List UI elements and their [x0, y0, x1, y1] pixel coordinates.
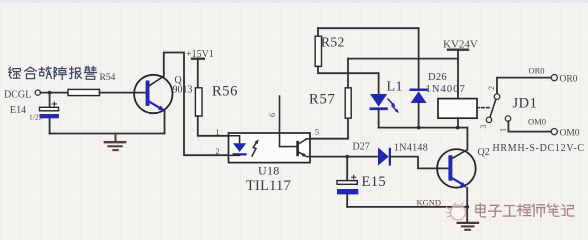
wire R54 to Q1 base [100, 92, 146, 94]
node junction D26 anode [417, 126, 421, 130]
diode D26 [409, 89, 427, 104]
svg-text:JD1: JD1 [513, 96, 538, 112]
resistor R54 [68, 89, 100, 95]
relay contact common [494, 94, 500, 100]
LED L1 [370, 73, 388, 127]
wire contact NO to OM0 [508, 121, 551, 131]
relay contact NC [486, 117, 491, 122]
wire E15 top stem [346, 157, 348, 181]
wire contact common to OR0 [497, 78, 551, 94]
node junction E15 tap [345, 155, 349, 159]
svg-text:2: 2 [487, 86, 496, 90]
svg-text:OM0: OM0 [560, 129, 580, 139]
svg-text:OM0: OM0 [528, 117, 546, 127]
wire KGND rail [347, 206, 467, 208]
watermark text 电子工程师笔记 [476, 204, 574, 217]
wire E14 bottom stem [49, 118, 51, 133]
wire R57 top [347, 59, 349, 88]
wire D27 to Q2 base [391, 157, 448, 169]
diode LED inside U18 [229, 136, 247, 156]
svg-text:1N4148: 1N4148 [394, 143, 428, 154]
ground right [458, 223, 478, 230]
wire DCGL to R54 [40, 92, 68, 94]
wire R57 bottom [347, 118, 349, 139]
capacitor E15 [337, 175, 358, 194]
node junction coil stem [456, 126, 460, 130]
wire pin5 to R57 [310, 138, 348, 140]
svg-text:R56: R56 [212, 84, 238, 100]
svg-text:6: 6 [268, 113, 277, 117]
svg-text:U18: U18 [258, 164, 280, 178]
arrows LED emission [388, 99, 399, 113]
wire R56 to opto pin1 [198, 116, 229, 136]
wire D26 top [418, 28, 420, 89]
svg-text:5: 5 [315, 128, 319, 137]
wire Q2 collector [466, 128, 468, 150]
wire R52 top stem [317, 28, 319, 36]
svg-text:1: 1 [216, 128, 220, 137]
capacitor E14 [40, 102, 59, 118]
svg-text:OR0: OR0 [529, 66, 545, 76]
transistor Q1 [134, 75, 172, 113]
op-amp U18 optocoupler box [229, 133, 311, 163]
svg-text:OR0: OR0 [560, 75, 578, 85]
svg-text:HRMH-S-DC12V-C: HRMH-S-DC12V-C [493, 143, 585, 154]
wire pin4 to D27 [310, 156, 378, 158]
power KV24V [443, 39, 478, 99]
svg-text:R54: R54 [100, 73, 116, 83]
relay contact NO [505, 116, 510, 121]
svg-text:1/25: 1/25 [29, 113, 43, 122]
wire E15 bottom stem [346, 194, 348, 207]
svg-text:D27: D27 [353, 142, 370, 153]
wire Q1 emitter [164, 111, 166, 133]
arrow light bolt [252, 139, 259, 156]
svg-text:9013: 9013 [173, 85, 193, 96]
svg-text:1: 1 [499, 128, 508, 132]
wire Q1 collector to opto pin2 [164, 53, 229, 156]
wire pin6 stub [280, 96, 297, 147]
transistor inside U18 [296, 139, 310, 157]
resistor R57 [345, 88, 351, 118]
wire coil bottom stem [457, 118, 459, 127]
wire +24V rail [348, 58, 458, 60]
diode D27 [378, 147, 391, 165]
ground left [105, 134, 125, 151]
power +15V1 [186, 49, 214, 88]
svg-text:L1: L1 [387, 80, 404, 95]
svg-text:1N4007: 1N4007 [426, 84, 466, 95]
wire emitter ground rail [50, 133, 165, 135]
relay contact arm [490, 99, 496, 117]
wire E14 top stem [49, 93, 51, 108]
svg-text:R52: R52 [321, 35, 345, 50]
watermark logo [446, 203, 465, 220]
svg-text:2: 2 [216, 147, 220, 156]
port OM0 circle [551, 129, 557, 135]
svg-text:DCGL: DCGL [4, 90, 31, 101]
node junction KGND [465, 205, 469, 209]
transistor Q2 [437, 149, 476, 188]
relay JD1 coil [438, 99, 477, 119]
resistor R56 [195, 88, 202, 116]
svg-text:E14: E14 [10, 105, 26, 116]
svg-text:R57: R57 [309, 92, 336, 108]
wire dashed link [477, 107, 491, 109]
wire R52 bottom to L1 [318, 66, 379, 73]
port DCGL circle [35, 90, 40, 95]
port OR0 circle [551, 75, 557, 81]
wire coil bottom node [379, 127, 468, 129]
wire D26 bottom [418, 103, 420, 128]
wire top rail [318, 27, 419, 29]
svg-text:3: 3 [479, 125, 488, 129]
resistor R52 [315, 36, 321, 66]
svg-text:TIL117: TIL117 [246, 178, 291, 194]
wire Q2 emitter [466, 188, 468, 222]
svg-text:E15: E15 [362, 174, 387, 190]
title 综合故障报警 [9, 67, 97, 80]
svg-text:D26: D26 [428, 72, 447, 83]
svg-text:Q2: Q2 [478, 147, 490, 158]
node junction E14 tap [48, 91, 52, 95]
